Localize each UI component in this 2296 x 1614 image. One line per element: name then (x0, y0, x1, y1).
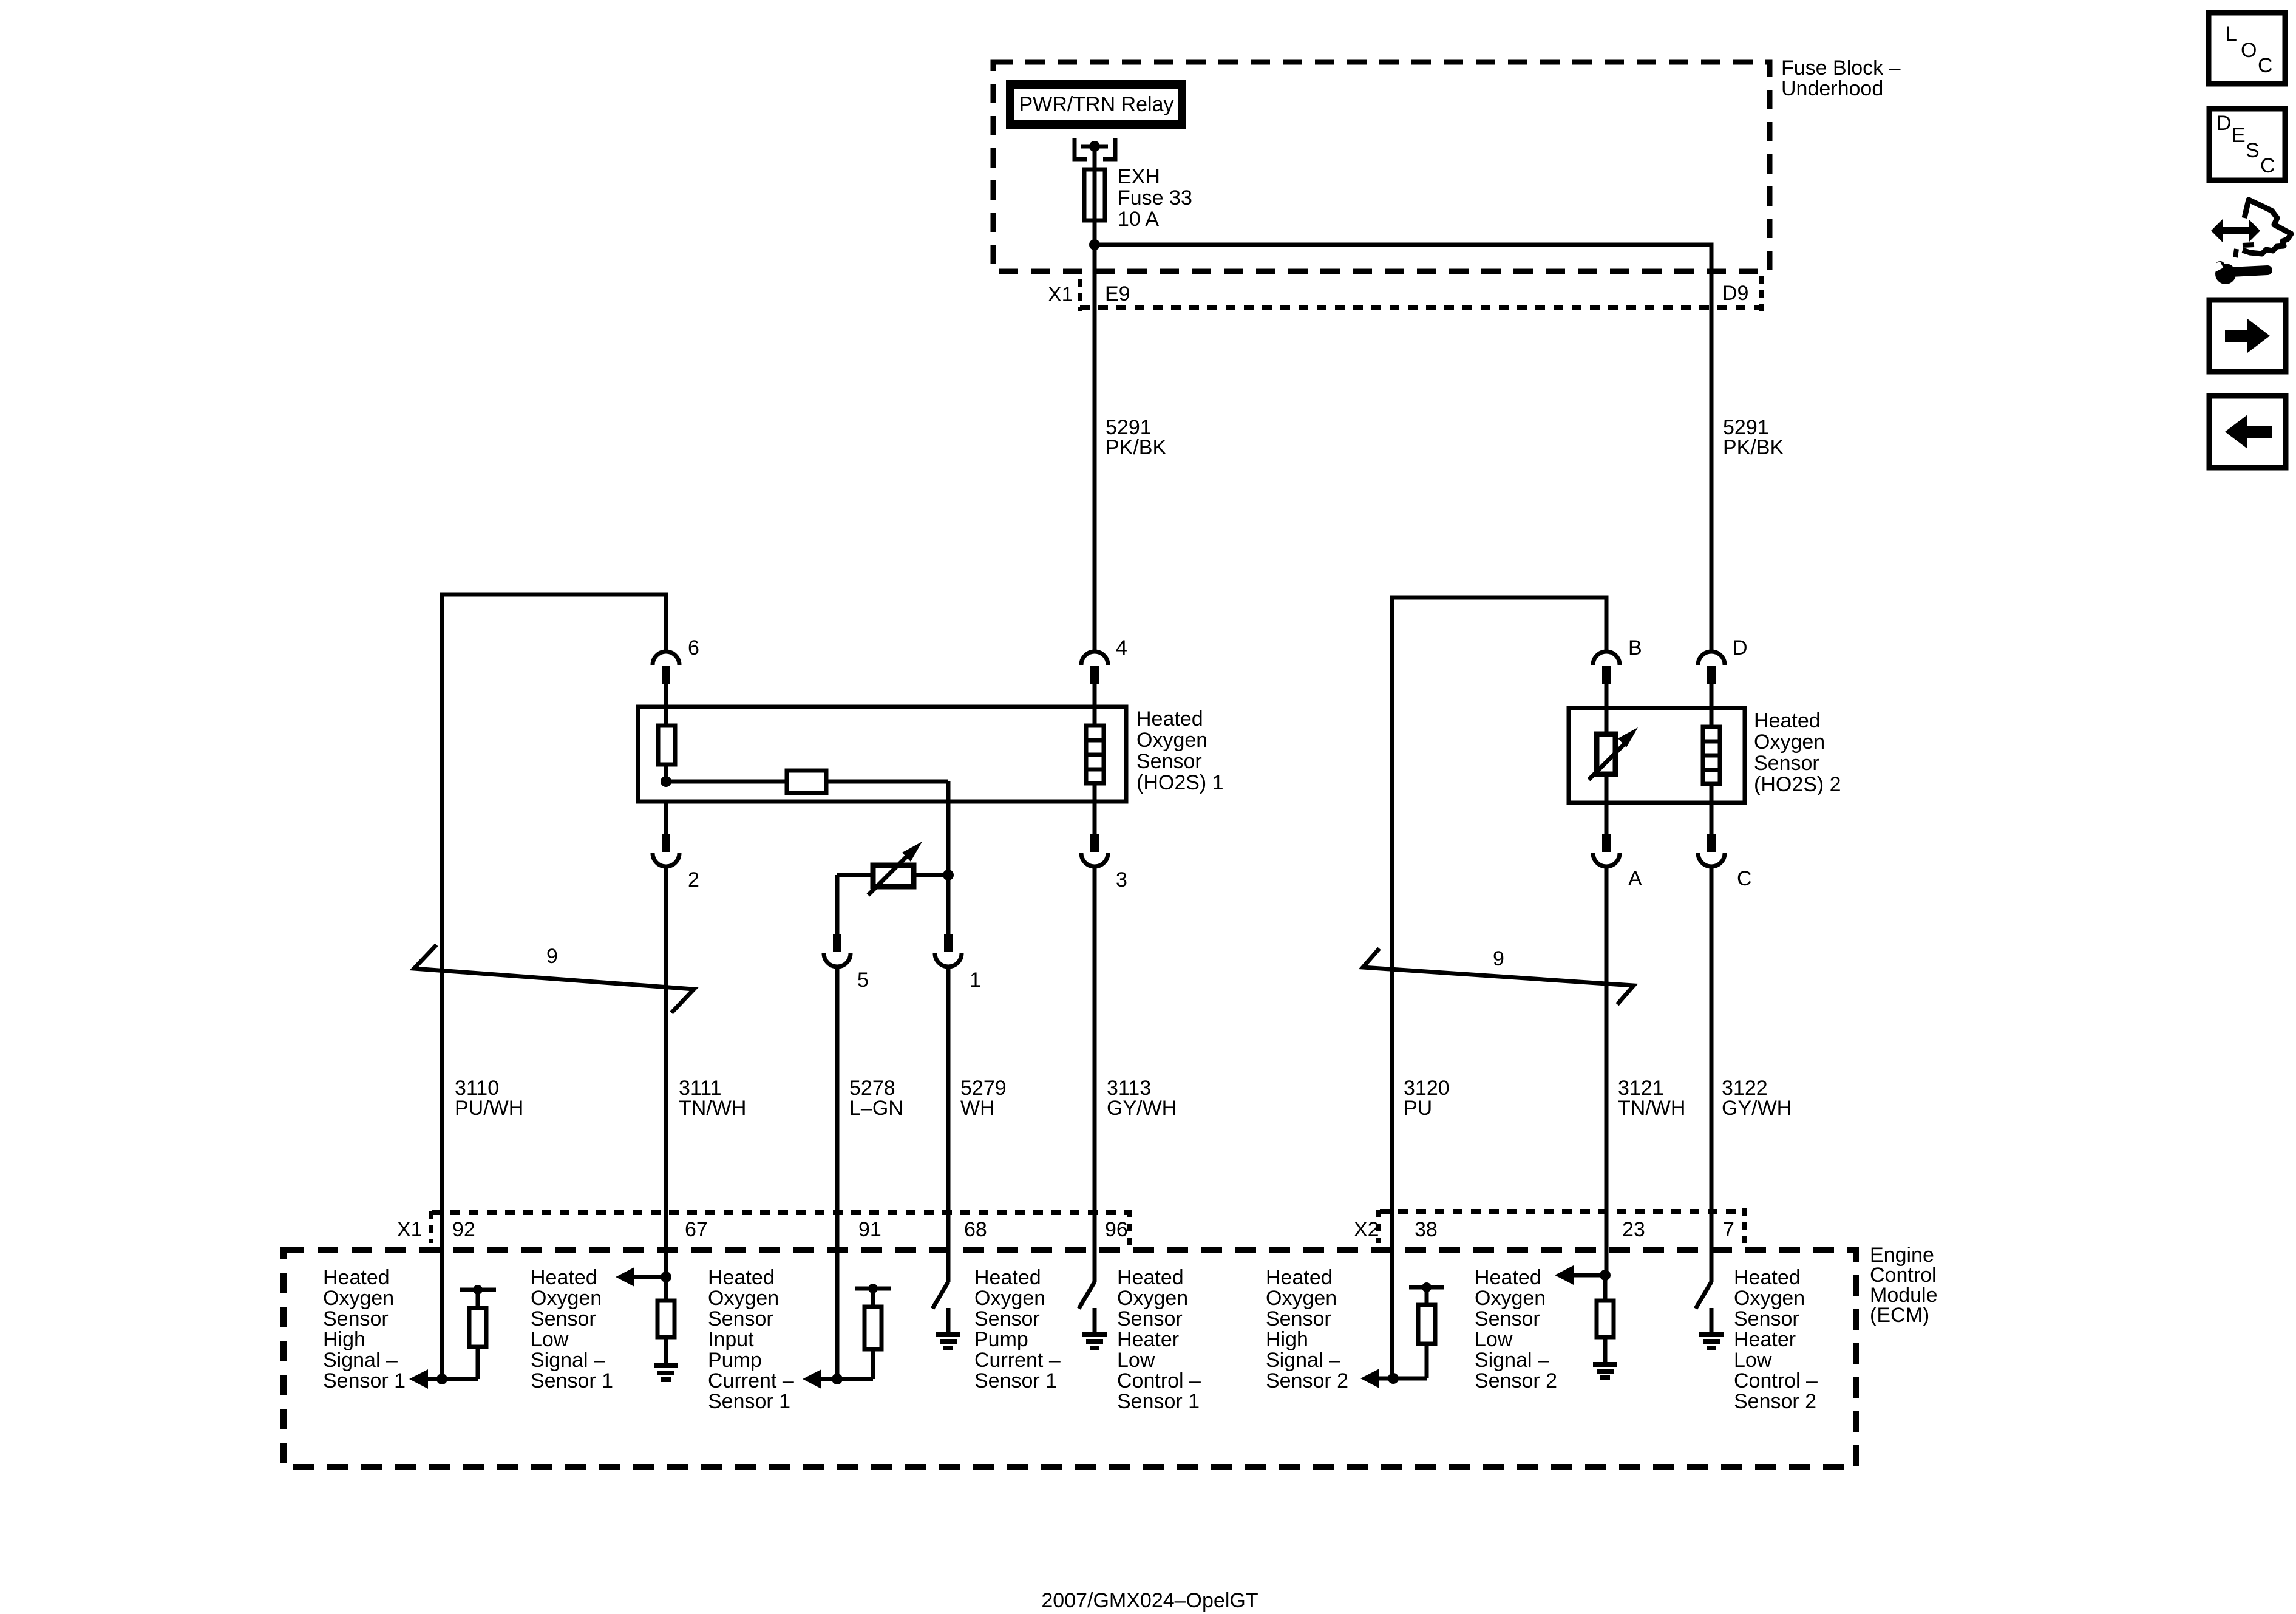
ECM 92 signal label (323, 1266, 406, 1392)
svg-text:Sensor 1: Sensor 1 (708, 1390, 790, 1413)
fuse block - underhood (dashed box) (993, 62, 1770, 271)
connector pin 2 (653, 802, 679, 867)
svg-text:D: D (2216, 112, 2232, 135)
svg-text:S: S (2246, 139, 2260, 162)
HO2S1 sensing cell (658, 726, 675, 764)
pump current branch wire (837, 873, 948, 877)
svg-text:Sensor: Sensor (531, 1307, 596, 1330)
svg-text:GY/WH: GY/WH (1107, 1097, 1177, 1120)
svg-text:Oxygen: Oxygen (1754, 730, 1825, 754)
svg-text:7: 7 (1723, 1218, 1734, 1241)
PWR/TRN relay K1 (1010, 84, 1182, 124)
svg-text:Sensor 1: Sensor 1 (1117, 1390, 1200, 1413)
HO2S2 sensing cell wire (1605, 708, 1609, 803)
svg-text:Oxygen: Oxygen (1117, 1287, 1188, 1310)
svg-text:L–GN: L–GN (849, 1097, 903, 1120)
wire 3113 GY/WH label (1107, 1077, 1177, 1120)
wire 3120 PU loop from ECM 38 up to HO2S2 pin B (1392, 598, 1606, 1378)
svg-text:2007/GMX024–OpelGT: 2007/GMX024–OpelGT (1041, 1589, 1258, 1612)
HO2S2 heater element (1703, 727, 1720, 784)
node at pin 1 branch (943, 870, 954, 880)
fuse block label (1781, 56, 1901, 100)
ECM connector strip X2 (1379, 1208, 1745, 1243)
wire 5291 PK/BK (right) label (1723, 416, 1784, 459)
svg-text:Signal –: Signal – (1475, 1349, 1549, 1372)
resistor ECM 91 (855, 1284, 891, 1349)
svg-text:EXH: EXH (1118, 165, 1160, 188)
svg-text:68: 68 (964, 1218, 987, 1241)
svg-text:PK/BK: PK/BK (1723, 436, 1784, 459)
ground ECM 96 (1082, 1308, 1107, 1348)
connector pin A (1593, 803, 1620, 867)
svg-text:C: C (2258, 54, 2273, 77)
HO2S2 variable sensing cell (1589, 727, 1638, 780)
svg-text:PU: PU (1404, 1097, 1432, 1120)
svg-text:(HO2S) 1: (HO2S) 1 (1136, 771, 1224, 794)
svg-text:D: D (1733, 636, 1748, 659)
svg-text:10 A: 10 A (1118, 208, 1159, 231)
svg-text:Heated: Heated (1117, 1266, 1184, 1289)
ECM 91: input pump current circuit (803, 1349, 873, 1389)
ECM 91 signal label (708, 1266, 794, 1413)
connector pin 6 (653, 652, 679, 707)
resistor ECM 38 (1409, 1282, 1444, 1344)
LOC reference box (2209, 13, 2285, 84)
ECM 67: HO2S low signal circuit (616, 1267, 671, 1301)
svg-text:Oxygen: Oxygen (323, 1287, 394, 1310)
svg-text:Low: Low (1475, 1328, 1513, 1351)
ground ECM 7 (1699, 1308, 1724, 1348)
internal wire down to pin 1 branch (946, 781, 951, 875)
HO2S1 label (1136, 707, 1224, 794)
internal wire to pump cell (666, 780, 948, 784)
ground ECM 67 (654, 1337, 678, 1380)
ECM 67 signal label (531, 1266, 613, 1392)
svg-text:Sensor 2: Sensor 2 (1266, 1369, 1348, 1392)
svg-text:Heated: Heated (1136, 707, 1203, 730)
svg-text:Control –: Control – (1117, 1369, 1201, 1392)
wire 3111 TN/WH pin 2 to ECM 67 (664, 867, 668, 1277)
svg-text:Control –: Control – (1734, 1369, 1818, 1392)
node inside HO2S1 (661, 776, 671, 787)
svg-text:TN/WH: TN/WH (679, 1097, 746, 1120)
svg-text:5: 5 (857, 969, 869, 992)
svg-text:Low: Low (1117, 1349, 1155, 1372)
ECM 96: heater low control switch (1079, 1282, 1095, 1309)
wire 3110 PU/WH label (455, 1077, 523, 1120)
wire 5278 L-GN pin 5 to ECM 91 (835, 967, 840, 1379)
connector strip X1 E9/D9 (1080, 276, 1764, 311)
svg-text:Heated: Heated (531, 1266, 597, 1289)
svg-text:Oxygen: Oxygen (1475, 1287, 1546, 1310)
svg-text:Heated: Heated (974, 1266, 1041, 1289)
wire 3121 TN/WH label (1618, 1077, 1685, 1120)
heated oxygen sensor HO2S 1 box (638, 707, 1126, 802)
svg-text:Low: Low (531, 1328, 569, 1351)
svg-text:PU/WH: PU/WH (455, 1097, 523, 1120)
svg-text:Oxygen: Oxygen (974, 1287, 1045, 1310)
svg-text:(HO2S) 2: (HO2S) 2 (1754, 773, 1841, 796)
ground ECM 68 (936, 1308, 960, 1348)
svg-text:Sensor 1: Sensor 1 (531, 1369, 613, 1392)
ECM 7: heater low control switch 2 (1696, 1282, 1711, 1309)
svg-text:Sensor: Sensor (974, 1307, 1040, 1330)
svg-text:Sensor 2: Sensor 2 (1475, 1369, 1557, 1392)
svg-text:Sensor 1: Sensor 1 (323, 1369, 406, 1392)
heated oxygen sensor HO2S 2 box (1569, 708, 1745, 803)
svg-text:23: 23 (1622, 1218, 1645, 1241)
resistor ECM 23 (1597, 1301, 1614, 1337)
svg-text:O: O (2241, 39, 2257, 62)
wire fuse node to D9 drop and down to pin D (1095, 245, 1711, 652)
svg-text:Current –: Current – (708, 1369, 794, 1392)
resistor ECM 92 (460, 1285, 496, 1347)
ECM 7 signal label (1734, 1266, 1818, 1413)
HO2S1 sensing cell wire (664, 707, 668, 781)
fuse value label (1118, 165, 1192, 231)
svg-text:Heated: Heated (1266, 1266, 1333, 1289)
harness slash right (9 wires) (1363, 948, 1634, 1004)
ECM 96 signal label (1117, 1266, 1201, 1413)
connector pin D (1698, 652, 1725, 708)
svg-text:Heated: Heated (1475, 1266, 1541, 1289)
svg-text:X2: X2 (1354, 1218, 1379, 1241)
node at fuse output (1089, 239, 1100, 250)
svg-text:Heated: Heated (1734, 1266, 1801, 1289)
wire 3122 GY/WH pin C to ECM 7 (1710, 867, 1714, 1282)
HO2S1 pump cell (787, 771, 826, 793)
svg-text:Input: Input (708, 1328, 754, 1351)
ECM 92: HO2S high signal input circuit (409, 1347, 478, 1389)
svg-text:Sensor 2: Sensor 2 (1734, 1390, 1816, 1413)
svg-text:D9: D9 (1722, 282, 1748, 305)
ECM 23 signal label (1475, 1266, 1557, 1392)
connector pin 4 (1081, 652, 1108, 707)
svg-text:Signal –: Signal – (323, 1349, 398, 1372)
svg-text:Sensor: Sensor (323, 1307, 389, 1330)
wire 5279 WH label (960, 1077, 1007, 1120)
wire 3111 TN/WH label (679, 1077, 746, 1120)
ECM label (1870, 1244, 1938, 1327)
svg-text:Heater: Heater (1117, 1328, 1179, 1351)
HO2S1 heater element (1086, 726, 1104, 783)
svg-text:PWR/TRN Relay: PWR/TRN Relay (1019, 93, 1173, 116)
svg-text:96: 96 (1105, 1218, 1128, 1241)
svg-text:Sensor: Sensor (1136, 750, 1202, 773)
variable resistor (pump current) (868, 842, 922, 895)
svg-text:X1: X1 (397, 1218, 423, 1241)
svg-text:TN/WH: TN/WH (1618, 1097, 1685, 1120)
svg-text:C: C (2260, 154, 2275, 177)
svg-text:Signal –: Signal – (531, 1349, 605, 1372)
harness slash left (9 wires) (414, 945, 694, 1013)
ground ECM 23 (1593, 1337, 1617, 1378)
svg-text:Low: Low (1734, 1349, 1772, 1372)
connector pin 3 (1081, 802, 1108, 867)
svg-text:3: 3 (1116, 868, 1127, 891)
svg-text:E9: E9 (1105, 282, 1130, 305)
ECM 68: pump current switch (932, 1282, 948, 1309)
ECM 38: HO2S high signal input circuit 2 (1360, 1344, 1427, 1388)
wire 5279 WH pin 1 to ECM 68 (946, 967, 951, 1282)
svg-text:E: E (2232, 124, 2246, 147)
svg-text:4: 4 (1116, 636, 1127, 659)
svg-text:Underhood: Underhood (1781, 77, 1883, 100)
svg-text:Oxygen: Oxygen (1266, 1287, 1337, 1310)
wire 3121 TN/WH pin A to ECM 23 (1605, 867, 1609, 1275)
wire branch down to pin 5 (835, 875, 840, 934)
svg-text:Fuse 33: Fuse 33 (1118, 186, 1192, 209)
svg-text:Sensor: Sensor (708, 1307, 773, 1330)
connector pin B (1593, 652, 1620, 708)
svg-text:GY/WH: GY/WH (1722, 1097, 1792, 1120)
svg-text:2: 2 (688, 868, 699, 891)
svg-text:Oxygen: Oxygen (531, 1287, 602, 1310)
svg-text:Oxygen: Oxygen (1734, 1287, 1805, 1310)
HO2S2 label (1754, 709, 1841, 796)
svg-text:Sensor 1: Sensor 1 (974, 1369, 1057, 1392)
ECM 68 signal label (974, 1266, 1061, 1392)
svg-text:Oxygen: Oxygen (708, 1287, 779, 1310)
wire 3120 PU label (1404, 1077, 1450, 1120)
svg-text:Pump: Pump (974, 1328, 1028, 1351)
svg-text:Sensor: Sensor (1117, 1307, 1183, 1330)
svg-text:9: 9 (1493, 947, 1504, 970)
svg-text:Heated: Heated (1754, 709, 1821, 732)
svg-text:Sensor: Sensor (1734, 1307, 1799, 1330)
svg-text:B: B (1628, 636, 1642, 659)
svg-text:L: L (2226, 22, 2237, 46)
svg-text:Oxygen: Oxygen (1136, 729, 1207, 752)
svg-text:PK/BK: PK/BK (1106, 436, 1166, 459)
wire branch down to pin 1 (946, 875, 951, 934)
fuse EXH Fuse 33 10 A (1084, 169, 1105, 220)
svg-text:67: 67 (685, 1218, 708, 1241)
connector pin C (1698, 803, 1725, 867)
ECM connector strip X1 (431, 1210, 1129, 1245)
HO2S2 heater element wire (1710, 708, 1714, 803)
wire relay to fuse to node (1093, 146, 1097, 652)
svg-text:Sensor: Sensor (1475, 1307, 1540, 1330)
backward reference arrow box (2209, 396, 2286, 468)
svg-text:A: A (1628, 867, 1642, 890)
svg-text:High: High (323, 1328, 365, 1351)
svg-text:WH: WH (960, 1097, 995, 1120)
svg-text:9: 9 (546, 945, 558, 968)
svg-text:Heater: Heater (1734, 1328, 1796, 1351)
wire 5278 L-GN label (849, 1077, 903, 1120)
forward reference arrow box (2209, 300, 2286, 372)
svg-text:Fuse Block –: Fuse Block – (1781, 56, 1901, 80)
wire 3122 GY/WH label (1722, 1077, 1792, 1120)
svg-text:1: 1 (970, 969, 981, 992)
svg-text:38: 38 (1415, 1218, 1438, 1241)
connector pin 5 (824, 934, 851, 967)
svg-text:Heated: Heated (323, 1266, 390, 1289)
svg-text:High: High (1266, 1328, 1308, 1351)
svg-text:6: 6 (688, 636, 699, 659)
wire 5291 PK/BK (left) label (1106, 416, 1166, 459)
engine control module ECM (dashed box) (284, 1250, 1856, 1467)
resistor ECM 67 (657, 1301, 674, 1337)
service/repair hand-wrench icon (2205, 200, 2291, 284)
connector pin 1 (935, 934, 962, 967)
svg-text:(ECM): (ECM) (1870, 1304, 1929, 1327)
svg-text:Pump: Pump (708, 1349, 762, 1372)
svg-text:Sensor: Sensor (1266, 1307, 1331, 1330)
svg-text:Signal –: Signal – (1266, 1349, 1340, 1372)
svg-text:Current –: Current – (974, 1349, 1061, 1372)
wire 3113 GY/WH pin 3 to ECM 96 (1093, 867, 1097, 1282)
wire 3110 PU/WH loop from ECM 92 up to HO2S1 pin 6 (442, 594, 666, 1379)
ECM 38 signal label (1266, 1266, 1348, 1392)
DESC reference box (2209, 109, 2285, 180)
relay output clip terminal (1075, 138, 1115, 159)
svg-text:C: C (1737, 867, 1752, 890)
svg-text:Heated: Heated (708, 1266, 775, 1289)
ECM 23: HO2S low signal circuit 2 (1555, 1265, 1611, 1301)
svg-text:91: 91 (858, 1218, 881, 1241)
HO2S1 heater element wire (1093, 707, 1097, 802)
svg-text:X1: X1 (1048, 283, 1073, 306)
svg-text:92: 92 (452, 1218, 475, 1241)
svg-text:Sensor: Sensor (1754, 752, 1819, 775)
